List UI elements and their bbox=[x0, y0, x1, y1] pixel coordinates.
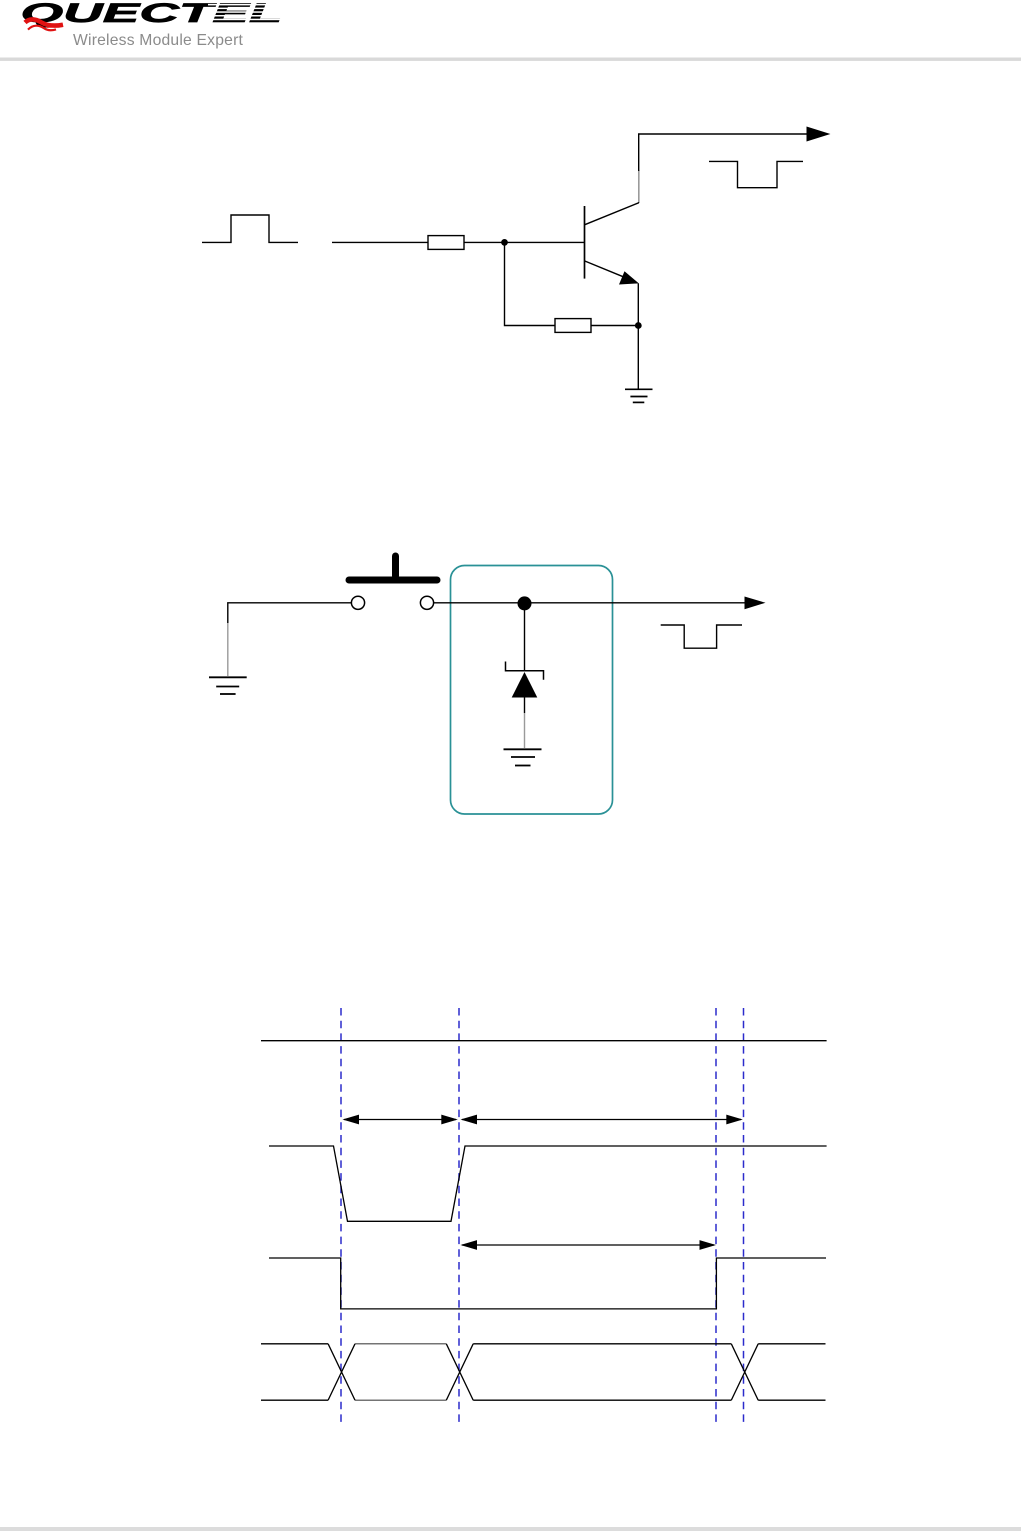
measure arrow 2 bbox=[461, 1115, 743, 1125]
switch contact right bbox=[420, 596, 433, 609]
arrow PWRKEY output bbox=[807, 127, 831, 142]
node base junction bbox=[502, 240, 507, 245]
guide line t4 bbox=[743, 1008, 745, 1424]
TVS protection box bbox=[451, 566, 613, 815]
UART crossover X2 bbox=[446, 1344, 473, 1400]
UART crossover X3 bbox=[731, 1344, 758, 1400]
wire node down to R2 bbox=[505, 242, 556, 325]
arrow output fig2 bbox=[745, 597, 766, 610]
ground fig1 bbox=[625, 389, 653, 402]
guide line t3 bbox=[715, 1008, 717, 1424]
UART crossover X1 bbox=[328, 1344, 355, 1400]
svg-text:Wireless Module Expert: Wireless Module Expert bbox=[73, 32, 243, 49]
wire base input bbox=[332, 241, 428, 243]
wire gray segment left bbox=[227, 623, 229, 676]
node TVS junction bbox=[518, 596, 532, 610]
wire collector to output bbox=[639, 134, 807, 171]
switch S1 bar bbox=[349, 556, 437, 580]
wire node to TVS bbox=[524, 603, 526, 671]
guide line t1 bbox=[340, 1008, 342, 1424]
wire R2 to emitter bbox=[591, 325, 638, 327]
wire collector up bbox=[638, 170, 640, 203]
wire gray segment TVS bbox=[524, 713, 526, 748]
Quectel logo wordmark bbox=[21, 0, 283, 28]
header separator rule bbox=[0, 58, 1021, 61]
PWRKEY waveform bbox=[269, 1146, 827, 1221]
transistor Q1 bbox=[585, 203, 639, 285]
output waveform fig2 bbox=[661, 625, 742, 648]
wire R1 to base bbox=[464, 241, 585, 243]
measure arrow 3 bbox=[461, 1240, 717, 1250]
logo red swoosh bbox=[25, 19, 63, 30]
footer separator rule bbox=[0, 1527, 1021, 1531]
TVS diode D1 bbox=[506, 662, 544, 698]
measure arrow 1 bbox=[343, 1115, 458, 1125]
node emitter junction bbox=[636, 323, 641, 328]
guide line t2 bbox=[458, 1008, 460, 1424]
wire emitter down bbox=[637, 283, 639, 389]
UART bus bottom line gray segment bbox=[355, 1399, 446, 1401]
ground fig2 left bbox=[209, 677, 247, 694]
wire collector gray segment bbox=[638, 170, 640, 202]
switch contact left bbox=[351, 596, 364, 609]
VBAT signal line bbox=[261, 1040, 827, 1042]
STATUS waveform bbox=[269, 1258, 826, 1309]
output waveform fig1 bbox=[709, 161, 803, 187]
wire TVS to ground bbox=[524, 698, 526, 714]
turn on pulse input waveform bbox=[202, 215, 298, 242]
resistor R1 bbox=[428, 236, 464, 250]
ground fig2 TVS bbox=[504, 749, 542, 765]
UART bus bottom line bbox=[261, 1399, 826, 1401]
wire left to ground bbox=[228, 603, 352, 623]
UART bus top line bbox=[261, 1343, 826, 1345]
UART bus top line gray segment bbox=[355, 1343, 446, 1345]
wire PWRKEY output bbox=[434, 602, 745, 604]
resistor R2 bbox=[555, 319, 591, 333]
